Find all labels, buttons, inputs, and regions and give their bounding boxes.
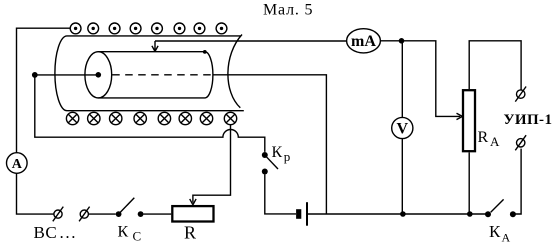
voltmeter V [392, 117, 413, 138]
switch Kc [116, 198, 144, 217]
wire: coil tap to milliammeter [155, 40, 347, 42]
ammeter A [6, 153, 27, 174]
svg-text:К: К [489, 222, 501, 241]
wire: frame node down, across with bridge over, to switch Kp [35, 75, 265, 152]
node: frame terminal junction [32, 72, 38, 78]
wire: upper terminal to Ra top [469, 41, 521, 90]
switch Ka [485, 199, 516, 217]
switch Kp [262, 152, 278, 175]
frame axis dashed line [112, 74, 211, 76]
wire: Ra bottom to bus [468, 152, 470, 214]
wire: bottom bus battery to switch Ka [308, 213, 488, 215]
svg-text:А: А [502, 231, 511, 245]
svg-text:ВС: ВС [34, 223, 58, 242]
wire: winding end down (crosses under bridge) to R wiper [193, 125, 231, 203]
wire: ammeter down to BC terminal [17, 173, 54, 214]
wire: junction down to voltmeter [401, 41, 403, 118]
svg-text:mA: mA [351, 33, 376, 50]
arrow: Ra wiper [457, 113, 463, 119]
svg-text:Мал. 5: Мал. 5 [263, 2, 313, 19]
rheostat Ra [463, 90, 475, 151]
arrow: tap onto coil frame [152, 41, 158, 51]
wire: voltmeter down to bus [401, 139, 403, 214]
frame winding tap dot [203, 50, 207, 54]
wire: terminal to switch Kc [89, 213, 116, 215]
rheostat R wiper arrow [190, 199, 196, 205]
terminal UIP-1 lower [515, 135, 526, 150]
wire: axis from node to frame center [35, 74, 99, 76]
svg-text:р: р [284, 149, 291, 164]
solenoid top winding turns (current out: dot symbols) [70, 23, 227, 34]
svg-text:УИП-1: УИП-1 [504, 112, 553, 128]
milliammeter mA [347, 29, 381, 53]
svg-text:А: А [490, 134, 500, 149]
movable coil frame (inner cylinder) [85, 50, 213, 98]
wire: switch Kc to rheostat R [144, 213, 172, 215]
node: Ra bottom junction [467, 211, 473, 217]
wire: top-left from winding start down to ammeter [17, 28, 71, 152]
svg-text:A: A [12, 157, 23, 172]
frame center pivot dot [96, 72, 102, 78]
svg-text:С: С [133, 229, 142, 244]
svg-text:V: V [397, 121, 409, 138]
terminal BC right [79, 207, 90, 222]
svg-text:R: R [184, 223, 196, 243]
terminal UIP-1 upper [515, 87, 526, 102]
wire: mA to junction and on to Ra wiper [380, 41, 460, 117]
solenoid bottom winding turns (current in: cross symbols) [66, 112, 236, 124]
svg-text:...: ... [60, 223, 78, 242]
wire: switch Kp down to battery [265, 175, 296, 214]
rheostat R [172, 206, 213, 221]
wire: axis wire from frame right end down to bottom bus [213, 75, 326, 214]
solenoid outer tube [55, 35, 244, 111]
node: voltmeter bottom junction [400, 211, 406, 217]
battery B1 [296, 202, 308, 226]
node: mA junction [399, 38, 405, 44]
terminal BC left [53, 207, 64, 222]
svg-text:К: К [118, 224, 129, 241]
svg-text:R: R [478, 129, 489, 146]
wire: Ka to power supply lower terminal [513, 149, 521, 214]
svg-text:К: К [272, 144, 283, 161]
